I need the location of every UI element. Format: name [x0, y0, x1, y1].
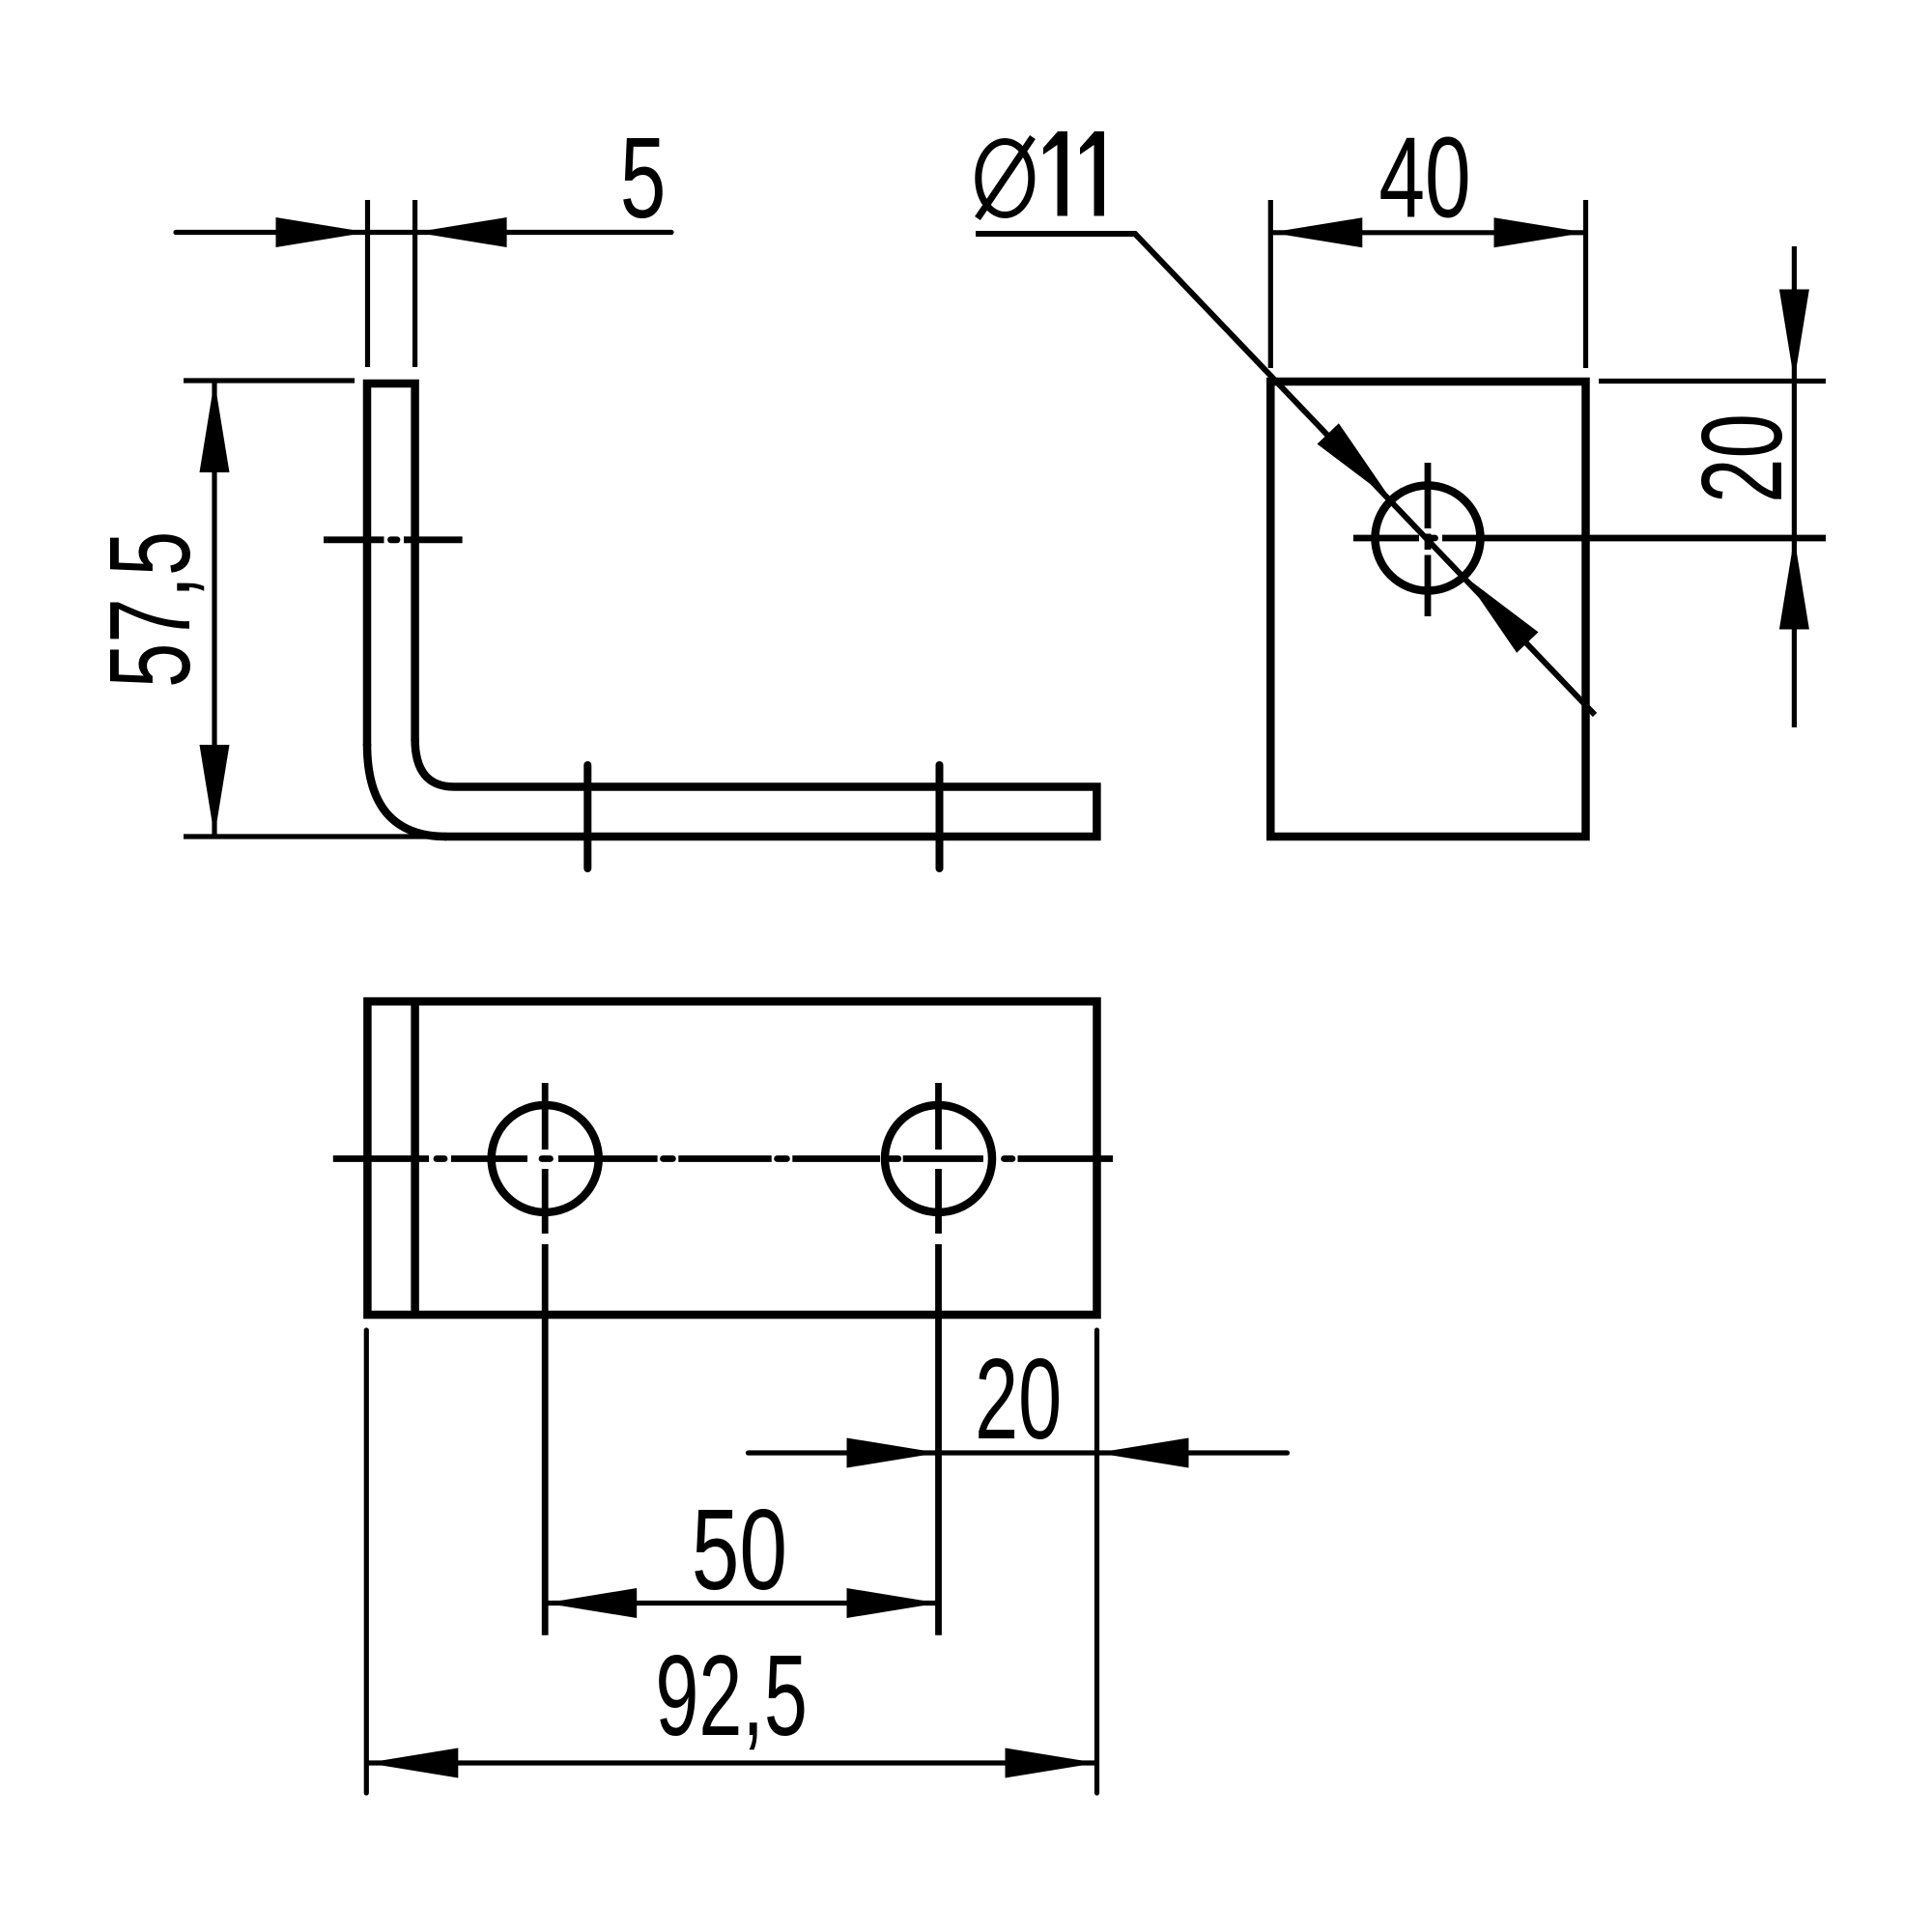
svg-text:20: 20 [1677, 413, 1805, 503]
plan view: right extension line (20 and 92,5 dims) [1094, 1330, 1099, 1793]
dimension line 20 (plan) [749, 1450, 1288, 1455]
side view: L-profile vertical leg outline [367, 384, 415, 746]
plan view: bend tangent line [411, 1002, 419, 1315]
label text 11 [1043, 131, 1067, 216]
svg-text:40: 40 [1378, 113, 1470, 241]
side view: 57,5-dim top extension line [184, 378, 355, 383]
plan view: hole 1 vertical centerline / extension [542, 1083, 549, 1150]
leader line from diameter label to hole [976, 234, 1595, 715]
side view: 5-dim right extension line [412, 200, 417, 367]
side view: inner bend curve [415, 739, 454, 787]
end view: 20-dim top extension line [1599, 379, 1826, 384]
end view: rectangle outline [1270, 382, 1585, 837]
arrowhead 20 plan (points right) [847, 1438, 939, 1468]
dimension line 20 (end view) [1792, 246, 1797, 727]
end view: horizontal centerline of hole / extension for 20-dim [1353, 535, 1419, 542]
arrowhead 5 right (points left) [415, 217, 507, 247]
leader arrowhead lower (points up-left at circle) [1464, 576, 1539, 652]
side view: hole position tick 1 [583, 765, 591, 868]
arrowhead 92,5 right (points right) [1006, 1748, 1097, 1778]
arrowhead 50 right (points right) [847, 1588, 939, 1618]
arrowhead 40 left (points left) [1270, 217, 1362, 247]
arrowhead 50 left (points left) [545, 1588, 637, 1618]
plan view: hole 2 vertical centerline / extension [935, 1083, 942, 1150]
arrowhead 57,5 down [200, 745, 230, 837]
plan view: plate outline rectangle [367, 1002, 1096, 1315]
svg-text:57,5: 57,5 [85, 531, 213, 688]
side view: outer bend curve [367, 744, 446, 837]
leader arrowhead upper (points down-right at circle) [1318, 423, 1392, 499]
dimension line 92,5 [366, 1760, 1096, 1765]
end view: 40-dim right extension line [1583, 200, 1588, 368]
arrowhead 57,5 up [200, 381, 230, 472]
plan view: hole 1 circle [492, 1105, 599, 1212]
plan view: hole 2 circle [885, 1105, 992, 1212]
arrowhead 20 pointing down [1779, 290, 1809, 382]
arrowhead 20 plan (points left) [1097, 1438, 1189, 1468]
svg-text:50: 50 [692, 1487, 787, 1614]
side view: hole position tick 2 [936, 765, 944, 868]
side view: 5-dim left extension line [365, 200, 370, 367]
dimension line 57,5 [212, 381, 216, 837]
dimension line 40 [1270, 230, 1585, 235]
dimension line 50 [545, 1601, 938, 1605]
arrowhead 5 left (points right) [276, 217, 368, 247]
arrowhead 92,5 left (points left) [366, 1748, 458, 1778]
svg-text:92,5: 92,5 [655, 1631, 807, 1759]
dimension line 5 [176, 230, 671, 235]
end view: vertical centerline of hole [1425, 463, 1432, 528]
side view: bottom extension line [184, 834, 444, 838]
arrowhead 40 right (points right) [1494, 217, 1586, 247]
svg-text:5: 5 [620, 113, 667, 241]
diameter symbol of label Ø11 [979, 142, 1032, 215]
end view: 40-dim left extension line [1268, 200, 1273, 368]
end view: hole circle [1376, 486, 1481, 591]
side view: horizontal leg outline with right end cap [444, 787, 1096, 838]
side view: hole-height centerline (dash-dot) [324, 536, 384, 543]
plan view: 92,5-dim left extension line [364, 1330, 369, 1793]
plan view: horizontal centerline (dash-dot) [333, 1155, 429, 1162]
arrowhead 20 pointing up [1779, 538, 1809, 630]
svg-text:20: 20 [975, 1334, 1062, 1463]
